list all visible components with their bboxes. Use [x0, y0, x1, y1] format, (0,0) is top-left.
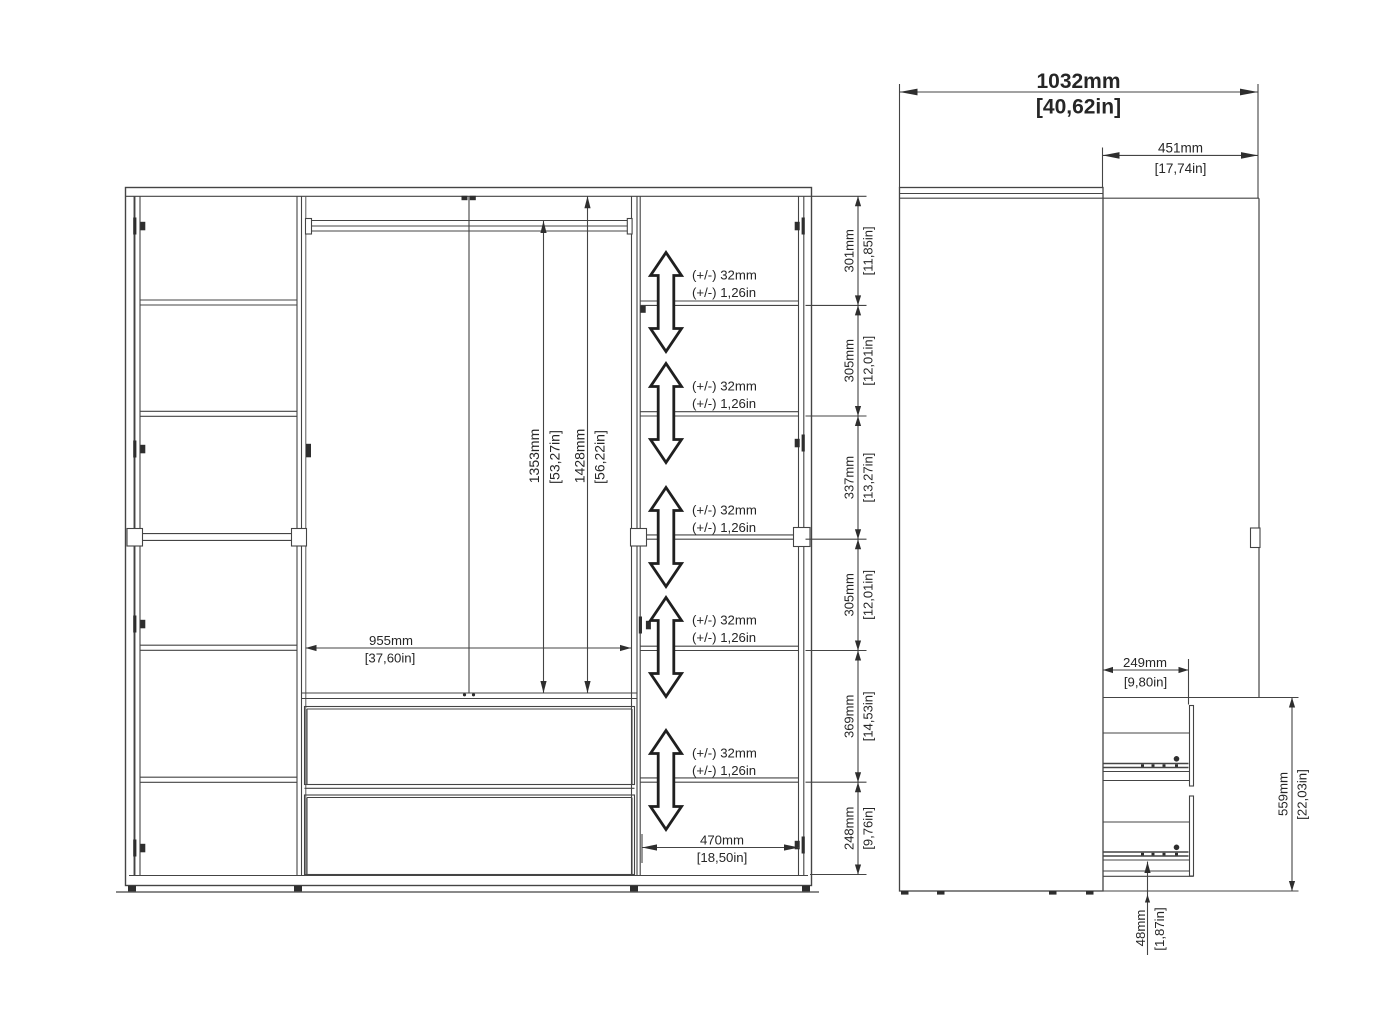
front view: mid-right foot	[630, 886, 638, 892]
front view: hinge on left door edge y449	[133, 441, 136, 458]
side view: drawer 1 top edge	[1103, 732, 1189, 734]
front view: left column shelf 3	[140, 533, 297, 535]
front view: right column shelf 4	[640, 645, 798, 647]
front view: fixed shelf connector block partition2	[631, 529, 647, 547]
side view: door top edge line	[900, 197, 1260, 199]
side view: bottom panel upper line	[1103, 870, 1189, 872]
svg-text:369mm: 369mm	[842, 695, 857, 738]
front view: hinge on partition 1	[306, 444, 311, 458]
svg-text:[12,01in]: [12,01in]	[861, 336, 876, 386]
front view: right side panel inner face	[798, 196, 800, 875]
svg-text:(+/-) 32mm: (+/-) 32mm	[692, 379, 757, 394]
front view: open section bottom shelf	[302, 692, 638, 694]
front view: rail bracket right	[627, 219, 632, 235]
front view: fixed shelf connector block right-panel	[794, 528, 811, 547]
front view: left open door edge (dark)	[134, 196, 136, 875]
front view: middle door edge line at partition 1	[305, 196, 307, 875]
side view: top panel bottom edge	[900, 193, 1104, 195]
front view: right column door edge line	[639, 196, 641, 875]
front view: top centre fitting right	[470, 196, 476, 200]
front view: left column shelf 1	[140, 299, 297, 301]
svg-text:(+/-) 32mm: (+/-) 32mm	[692, 613, 757, 628]
svg-text:248mm: 248mm	[842, 807, 857, 850]
front view: rail bracket left	[306, 219, 312, 235]
side view: drawer 1 slide rail	[1103, 763, 1189, 765]
dimension 470mm right column width	[641, 834, 643, 863]
svg-text:(+/-) 1,26in: (+/-) 1,26in	[692, 520, 756, 535]
front view: right column shelf 3	[640, 534, 798, 536]
front view: hinge on left door edge y226	[133, 218, 136, 235]
svg-text:305mm: 305mm	[842, 573, 857, 616]
dimension 337mm [13,27in] segment	[855, 416, 861, 426]
side view: drawer 2 slide rail	[1103, 851, 1189, 853]
svg-text:[37,60in]: [37,60in]	[365, 651, 416, 666]
front view: mid-left foot	[294, 886, 302, 892]
svg-text:[22,03in]: [22,03in]	[1295, 769, 1310, 820]
front view: partition 1 right line	[301, 196, 303, 875]
front view: adjustable-shelf arrow 1	[651, 253, 682, 352]
svg-text:(+/-) 32mm: (+/-) 32mm	[692, 268, 757, 283]
side view: floor line under door	[1103, 890, 1258, 892]
front view: top centre fitting left	[462, 196, 468, 200]
dimension 248mm [9,76in] segment	[855, 782, 861, 792]
front view: left column shelf 4	[140, 644, 297, 646]
svg-text:249mm: 249mm	[1123, 655, 1167, 670]
side view: open door outer edge	[1258, 198, 1260, 697]
svg-text:[9,76in]: [9,76in]	[861, 807, 876, 850]
svg-text:[53,27in]: [53,27in]	[547, 430, 563, 484]
svg-text:[12,01in]: [12,01in]	[861, 570, 876, 620]
front view: right open door edge	[803, 196, 805, 875]
dimension 1032mm total depth with door open	[899, 84, 901, 188]
side view: back-mid foot	[937, 891, 945, 895]
right dimension chain extension ticks	[812, 195, 867, 197]
front view: hinge on partition 2 middle	[639, 617, 642, 634]
right dimension chain line	[857, 196, 859, 874]
side view: drawer 1 front panel	[1190, 706, 1194, 787]
svg-text:559mm: 559mm	[1275, 772, 1290, 816]
front view: hinge on left door edge y848	[133, 840, 136, 857]
dimension 1353mm interior height to rail	[543, 221, 545, 693]
side view: drawer 2 roller	[1174, 845, 1180, 851]
front view: right column shelf 1	[640, 300, 798, 302]
svg-text:48mm: 48mm	[1133, 910, 1148, 947]
side view: body outline	[900, 188, 1104, 892]
svg-text:1353mm: 1353mm	[526, 429, 542, 483]
dimension 305mm [12,01in] segment	[855, 539, 861, 549]
dimension 369mm [14,53in] segment	[855, 651, 861, 661]
svg-text:1428mm: 1428mm	[572, 429, 588, 483]
front view: wardrobe outer frame	[126, 188, 812, 886]
svg-text:[1,87in]: [1,87in]	[1152, 907, 1167, 950]
front view: hinge on partition 2 below shelf1	[641, 306, 646, 313]
front view: left side panel inner face	[139, 196, 141, 875]
side view: drawer 1 bottom line	[1103, 771, 1189, 773]
side view: door handle	[1251, 528, 1261, 548]
svg-text:[40,62in]: [40,62in]	[1036, 96, 1121, 119]
front view: partition 2 left line	[631, 196, 633, 875]
front view: bottom panel top edge	[129, 875, 808, 877]
dimension 955mm interior width	[306, 647, 632, 649]
svg-text:(+/-) 1,26in: (+/-) 1,26in	[692, 285, 756, 300]
svg-text:[9,80in]: [9,80in]	[1124, 675, 1167, 690]
svg-text:(+/-) 1,26in: (+/-) 1,26in	[692, 396, 756, 411]
svg-text:[14,53in]: [14,53in]	[861, 691, 876, 741]
svg-text:[17,74in]: [17,74in]	[1155, 161, 1207, 176]
side view: drawer 2 top edge	[1103, 821, 1189, 823]
front view: partition 1 left line	[296, 196, 298, 875]
dimension 1428mm interior height	[587, 196, 589, 693]
front view: adjustable-shelf arrow 5	[651, 731, 682, 830]
front view: drawer 2	[305, 795, 635, 875]
svg-text:[11,85in]: [11,85in]	[861, 226, 876, 275]
svg-text:(+/-) 32mm: (+/-) 32mm	[692, 746, 757, 761]
side view: drawer 1 box bottom	[1103, 780, 1189, 782]
front view: centre line bottom fittings	[463, 693, 466, 696]
front view: drawer 1 front bottom edge	[305, 787, 635, 789]
side view: drawer 2 bottom line	[1103, 859, 1189, 861]
svg-text:451mm: 451mm	[1158, 140, 1203, 155]
svg-text:(+/-) 1,26in: (+/-) 1,26in	[692, 763, 756, 778]
svg-text:[18,50in]: [18,50in]	[697, 850, 748, 865]
dimension 301mm [11,85in] segment	[855, 196, 861, 206]
svg-text:[13,27in]: [13,27in]	[861, 453, 876, 503]
svg-text:470mm: 470mm	[700, 832, 744, 847]
front view: left column shelf 2	[140, 410, 297, 412]
front view: hinge on right panel y226	[802, 218, 805, 235]
dimension 249mm drawer depth	[1188, 659, 1190, 705]
front view: fixed shelf connector block left-panel	[127, 529, 143, 547]
front view: left foot	[128, 886, 136, 892]
side view: door bottom / drawer zone top	[1103, 697, 1299, 699]
front view: hinge on right panel y443	[802, 435, 805, 452]
front view: fixed shelf connector block partition1	[292, 529, 307, 547]
svg-text:(+/-) 1,26in: (+/-) 1,26in	[692, 630, 756, 645]
side view: drawer 1 roller	[1174, 756, 1180, 762]
dimension 305mm [12,01in] segment	[855, 305, 861, 315]
front view: floor line	[116, 891, 819, 893]
front view: hanging rail	[311, 220, 628, 222]
svg-text:1032mm: 1032mm	[1036, 70, 1120, 93]
svg-text:955mm: 955mm	[369, 633, 413, 648]
dimension 451mm door width	[1102, 148, 1104, 188]
dimension 48mm plinth height leader	[1147, 862, 1149, 956]
dimension 559mm drawer section height	[1252, 890, 1299, 892]
front view: centre door meeting line	[468, 196, 470, 693]
front view: right foot	[802, 886, 810, 892]
front view: adjustable-shelf arrow 3	[651, 488, 682, 587]
front view: left column shelf 5	[140, 776, 297, 778]
svg-text:337mm: 337mm	[842, 456, 857, 499]
svg-text:301mm: 301mm	[842, 229, 857, 272]
front view: hinge on left door edge y624	[133, 616, 136, 633]
front view: top panel bottom edge	[126, 195, 812, 197]
side view: drawer 2 front panel	[1190, 796, 1194, 876]
front view: drawer 1	[305, 707, 635, 785]
front view: adjustable-shelf arrow 4	[651, 598, 682, 697]
front view: partition 2 mid line	[636, 196, 638, 875]
svg-text:(+/-) 32mm: (+/-) 32mm	[692, 503, 757, 518]
front view: right column shelf 2	[640, 411, 798, 413]
front view: adjustable-shelf arrow 2	[651, 364, 682, 463]
side view: back foot	[901, 891, 909, 895]
svg-text:[56,22in]: [56,22in]	[592, 430, 608, 484]
side view: bottom panel line	[1103, 875, 1194, 877]
side view: front foot	[1086, 891, 1094, 895]
front view: right column shelf 5	[640, 777, 798, 779]
side view: front-mid foot	[1049, 891, 1057, 895]
svg-text:305mm: 305mm	[842, 339, 857, 382]
front view: hinge on right panel y845	[802, 837, 805, 854]
